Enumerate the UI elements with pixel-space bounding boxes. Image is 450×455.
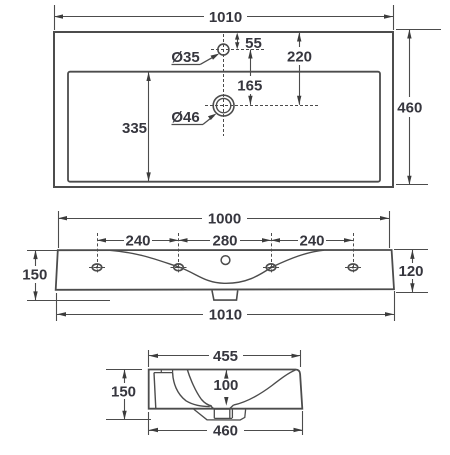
dimension 1000: line [58,218,202,220]
dimension 460 bottom: left extension [148,412,150,435]
dimension 1000: left extension [58,211,60,248]
hole extension dashed line 4 [353,233,355,274]
dimension 1010 top: right extension line [393,5,395,30]
svg-text:335: 335 [122,120,147,137]
dimension 1010 top: line [54,16,204,18]
dimension 150 side: top extension [106,369,142,371]
front view overflow hole [221,256,230,265]
svg-text:Ø35: Ø35 [171,49,199,66]
svg-text:240: 240 [299,233,324,250]
svg-text:240: 240 [125,233,150,250]
label Ø46 leader [172,124,204,126]
dimension 460 bottom: right extension [302,411,304,435]
side view top-left mounting tab [154,370,173,373]
svg-text:460: 460 [397,99,422,116]
svg-text:1010: 1010 [209,307,242,324]
side view pedestal left line [154,373,156,409]
side view outline [149,370,303,409]
svg-text:280: 280 [212,233,237,250]
dimension 460 right: bottom extension line [396,184,428,186]
svg-text:455: 455 [213,348,238,365]
horizontal dashed line through drain hole [205,105,318,107]
label Ø35 leader [172,64,201,66]
svg-text:220: 220 [287,48,312,65]
dimension 150 side: line [124,369,126,383]
front view outline [56,250,394,290]
side view pedestal front curve [173,373,210,407]
dimension 1010 top: left extension line [54,5,56,30]
dimension 460 bottom: line [149,430,207,432]
dimension 120 right: bottom extension [396,292,428,294]
svg-text:150: 150 [111,384,136,401]
dimension 460 right: top extension line [396,29,441,31]
tap hole Ø35 circle [218,44,229,55]
dimension 455: left extension [148,350,150,367]
front view drain tab [212,291,238,301]
hole extension dashed line 3 [271,233,273,274]
dimension 120 right: top extension [394,249,428,251]
dimension 280 middle: line [179,240,211,242]
dimension 335: line [148,72,150,181]
mounting hole 3 [266,264,275,271]
svg-text:1010: 1010 [209,9,242,26]
side view bowl interior right curve [233,370,295,405]
dimension 55: arrows [237,38,239,44]
hole extension dashed line 2 [178,233,180,274]
dimension 220: line [299,33,301,48]
svg-text:460: 460 [213,422,238,439]
side view drain recess [210,405,234,409]
svg-text:55: 55 [245,35,262,52]
drain hole Ø46 outer circle [213,95,234,116]
dimension 1010 bottom: left extension [56,293,58,321]
dimension 460 right: line [409,30,411,98]
dimension 100: arrows [226,370,228,375]
dimension 1010 top: arrowheads [54,14,63,18]
vertical centerline dashed through holes [223,34,225,136]
side view drain tab lines [214,409,232,418]
mounting hole 2 [174,264,183,271]
horizontal dashed line through tap hole [211,49,266,51]
dimension 120 right: line [412,250,414,263]
drain hole Ø46 inner circle [216,98,230,112]
dimension 1010 bottom: line [57,314,203,316]
dimension 455: line [149,355,209,357]
dimension 455: right extension [300,350,302,367]
dimension 240 left: line [97,240,124,242]
dimension 220: arrowheads [297,33,301,42]
top view inner basin rect [68,72,380,182]
dimension 1000: right extension [389,211,391,248]
mounting hole 1 [92,264,101,271]
hole extension dashed line 1 [97,233,99,274]
side view bowl back curve [187,370,212,407]
dimension 150 front: bottom extension [27,300,110,302]
side view foot outline below [194,409,246,420]
svg-text:1000: 1000 [208,211,241,228]
svg-text:120: 120 [398,263,423,280]
top view outer rect [54,32,393,187]
front view interior bowl curve [110,250,324,283]
dimension 460 right: arrowheads [407,30,411,39]
dimension 165: arrowheads [248,50,252,59]
dimension 150 side: bottom extension [106,419,151,421]
svg-text:150: 150 [22,266,47,283]
svg-text:Ø46: Ø46 [171,109,199,126]
dimension 150 front: line [35,250,37,266]
mounting hole 4 [348,264,357,271]
svg-text:100: 100 [213,377,238,394]
dimension 240 right: line [271,240,298,242]
dimension 165: line [250,50,252,77]
dimension 150 front: top extension [27,250,57,252]
dimension 1010 bottom: right extension [394,291,396,321]
svg-text:165: 165 [237,77,262,94]
dimension 335: arrowheads [146,72,150,81]
